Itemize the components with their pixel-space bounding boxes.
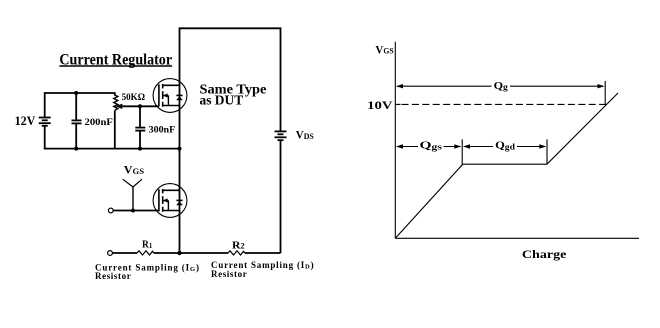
graph x-axis — [395, 237, 639, 239]
svg-text:as DUT: as DUT — [200, 92, 244, 107]
boundary bar plateau right — [546, 139, 548, 164]
arrow Q1 gate-side — [163, 93, 168, 97]
svg-text:Qgs: Qgs — [420, 140, 443, 152]
title Current Regulator — [59, 51, 172, 68]
wire 12V loop top — [45, 93, 115, 117]
probe VGS stem — [132, 187, 134, 211]
dimension Qg line — [397, 85, 603, 87]
probe VGS V shape — [123, 179, 142, 187]
terminal open circle bottom left — [108, 251, 113, 256]
arrowhead Qgs right — [454, 144, 461, 148]
arrow Q2 gate-side — [163, 198, 168, 202]
node dot main line bottom rail — [178, 147, 182, 151]
svg-text:12V: 12V — [15, 113, 36, 128]
svg-text:Resistor: Resistor — [95, 271, 131, 281]
arrowhead Qgd right — [539, 144, 546, 148]
svg-text:200nF: 200nF — [85, 117, 113, 128]
svg-text:300nF: 300nF — [149, 126, 176, 136]
wire bottom rail left of R1 — [112, 252, 137, 254]
dimension Qgd line — [464, 146, 545, 148]
svg-text:Qg: Qg — [494, 81, 509, 92]
potentiometer 50K zigzag — [114, 95, 118, 111]
wire bottom rail between R1 R2 — [154, 252, 228, 254]
dimension Qgs line — [397, 146, 460, 148]
node dot 300nF bottom — [138, 147, 142, 151]
battery VDS — [275, 131, 287, 140]
arrowhead Qg left — [396, 84, 403, 88]
battery 12V — [39, 118, 51, 126]
svg-text:VDS: VDS — [296, 130, 314, 142]
svg-text:R1: R1 — [142, 240, 152, 251]
tick 10V — [395, 103, 400, 105]
op circle lower MOSFET Q2 DUT — [153, 184, 187, 218]
capacitor 300nF — [135, 106, 145, 148]
node dot VGS probe — [131, 209, 135, 213]
wire bottom rail right of R2 — [245, 252, 281, 254]
node dot bottom of 200nF — [74, 147, 78, 151]
svg-text:Qgd: Qgd — [495, 140, 515, 152]
transistor Q1 internals — [159, 84, 180, 107]
wiper arrow of potentiometer — [116, 104, 159, 109]
svg-text:R2: R2 — [232, 239, 245, 251]
svg-text:10V: 10V — [367, 98, 393, 112]
wire VDS lower — [280, 140, 282, 253]
resistor R1 — [137, 251, 154, 255]
arrowhead Qgd left — [463, 144, 470, 148]
body diode Q2 — [176, 200, 183, 205]
svg-text:Resistor: Resistor — [211, 269, 247, 279]
wire lower gate — [113, 210, 159, 212]
terminal open circle VGS input — [108, 208, 113, 213]
node dot bottom main — [177, 251, 181, 255]
curve gate charge — [395, 93, 618, 238]
resistor R2 — [228, 251, 245, 255]
wire top loop — [180, 28, 281, 253]
wire 12V loop bottom — [45, 126, 180, 149]
boundary bar plateau left — [461, 139, 463, 164]
boundary bar Qg right — [604, 81, 606, 105]
svg-text:50KΩ: 50KΩ — [122, 92, 145, 102]
arrowhead Qg right — [598, 84, 605, 88]
op circle upper MOSFET Q1 — [153, 79, 187, 113]
dashed line 10V level — [402, 103, 607, 105]
capacitor 200nF — [72, 93, 82, 149]
arrowhead Qgs left — [396, 144, 403, 148]
graph y-axis — [394, 42, 396, 239]
node dot 300nF top — [138, 104, 142, 108]
node dot top of 200nF — [74, 91, 78, 95]
body diode Q1 — [176, 95, 183, 100]
svg-text:Charge: Charge — [522, 249, 567, 261]
svg-text:VGS: VGS — [375, 44, 394, 56]
transistor Q2 internals — [159, 189, 180, 212]
